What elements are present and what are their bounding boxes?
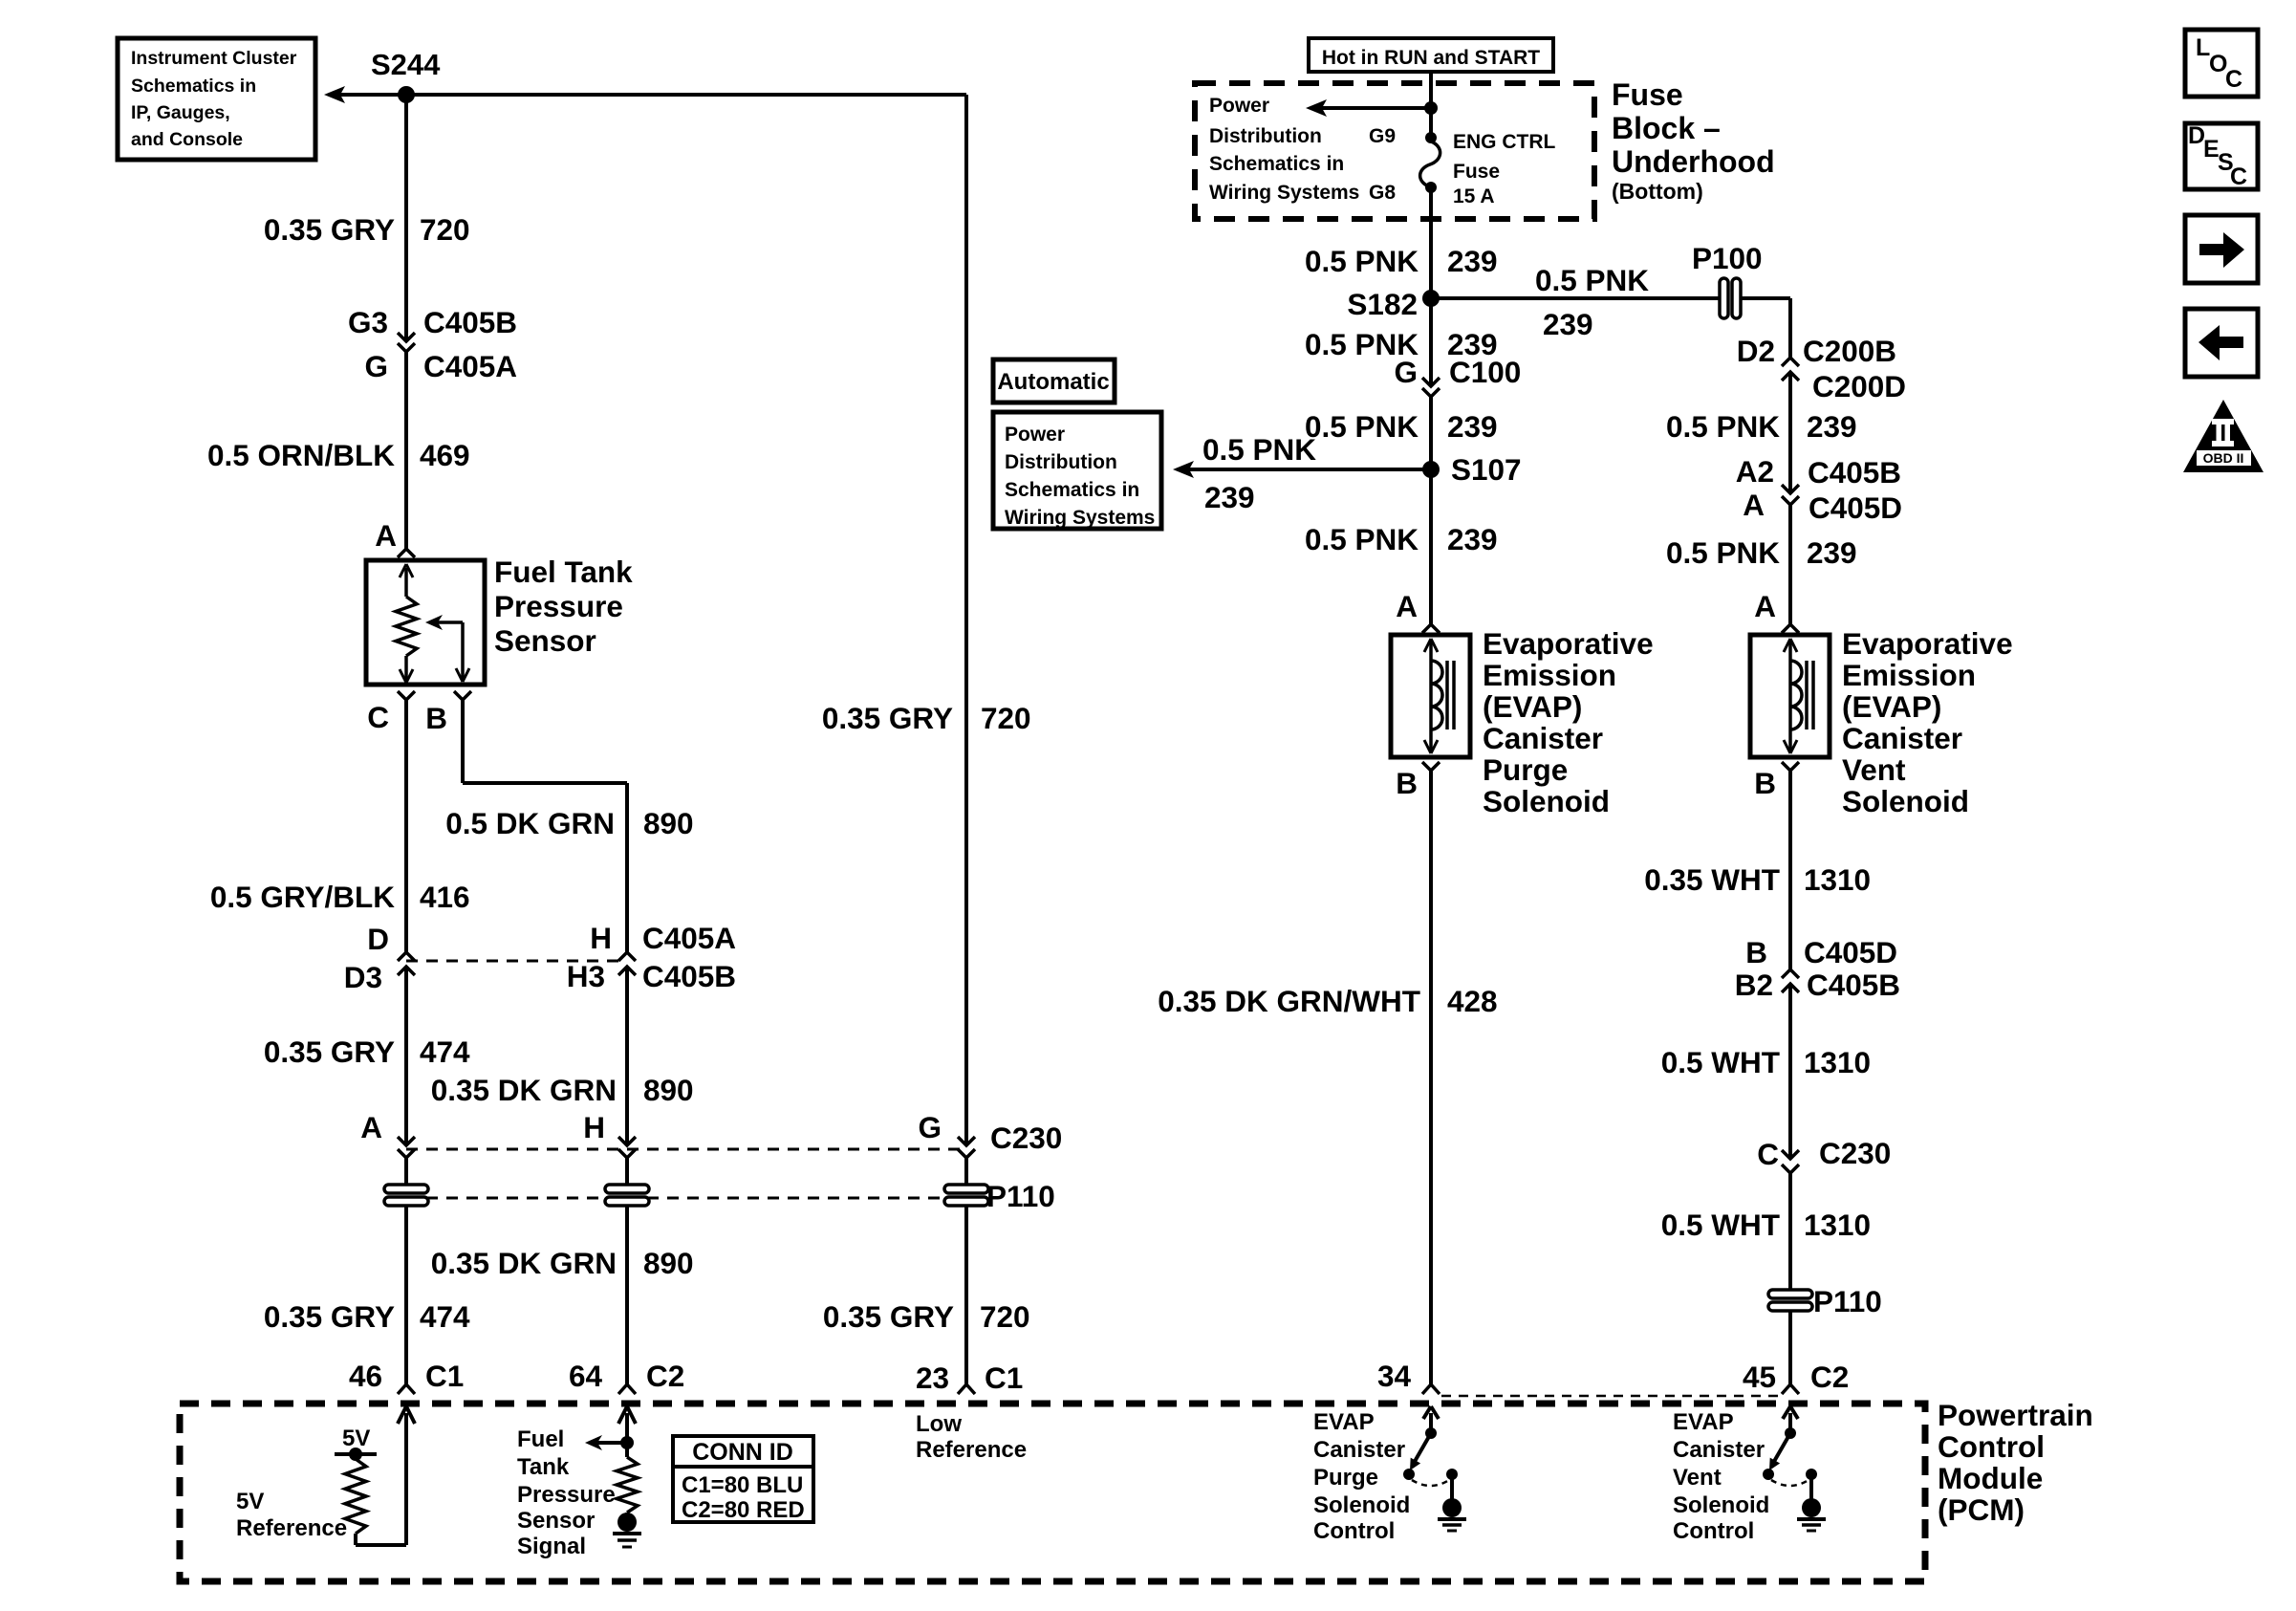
wire S244 to Instrument Cluster box with arrow — [324, 86, 406, 103]
wire 0.5 PNK 239 S182 down — [1429, 298, 1433, 386]
PCM pin 64 C2 — [569, 1359, 684, 1394]
svg-text:C200D: C200D — [1812, 369, 1906, 403]
svg-text:Fuse: Fuse — [1612, 77, 1683, 112]
svg-text:D2: D2 — [1737, 334, 1775, 368]
svg-text:Schematics in: Schematics in — [131, 76, 256, 97]
svg-text:0.5 PNK: 0.5 PNK — [1305, 244, 1419, 278]
wire 0.5 WHT 1310 lower — [1788, 1173, 1792, 1290]
label 0.5 PNK 239 (right lower) — [1666, 535, 1857, 570]
svg-text:0.5 PNK: 0.5 PNK — [1202, 432, 1316, 467]
svg-text:CONN ID: CONN ID — [692, 1439, 793, 1466]
svg-text:S107: S107 — [1451, 452, 1522, 487]
svg-text:OBD II: OBD II — [2203, 450, 2244, 466]
connector C230 pin H — [583, 1110, 636, 1158]
icon back arrow box — [2185, 309, 2258, 377]
svg-text:B: B — [1754, 766, 1776, 800]
label 5V Reference — [236, 1489, 347, 1541]
svg-text:0.5 WHT: 0.5 WHT — [1661, 1208, 1780, 1242]
PCM EVAP canister purge solenoid control switch — [1403, 1406, 1466, 1531]
svg-text:G8: G8 — [1369, 182, 1396, 204]
svg-text:239: 239 — [1807, 535, 1857, 570]
connector pins H/H3 — [567, 921, 736, 993]
svg-text:P100: P100 — [1692, 241, 1763, 275]
purge solenoid pin B — [1396, 762, 1440, 800]
label 0.5 PNK 239 (S107 down) — [1305, 522, 1498, 556]
svg-text:C405A: C405A — [423, 349, 517, 383]
svg-text:1310: 1310 — [1804, 1208, 1871, 1242]
wire from Hot box into fuse block — [1429, 72, 1433, 138]
vent solenoid pin B — [1754, 762, 1799, 800]
label 0.5 WHT 1310 lower — [1661, 1208, 1871, 1242]
label 0.35 DK GRN 890 — [431, 1073, 694, 1107]
svg-text:0.35 GRY: 0.35 GRY — [823, 1299, 954, 1334]
wire 0.5 PNK 239 S107 down to purge solenoid — [1429, 469, 1433, 624]
svg-text:S182: S182 — [1347, 287, 1418, 321]
Automatic tag box — [993, 359, 1115, 403]
svg-text:A: A — [1743, 488, 1765, 522]
svg-text:Hot in RUN and START: Hot in RUN and START — [1322, 47, 1540, 69]
wire 0.5 WHT 1310 upper — [1788, 984, 1792, 1159]
wire 0.35 GRY 474 lower segment — [404, 1206, 408, 1384]
label Evaporative Emission (EVAP) Canister Purge Solenoid — [1483, 626, 1654, 818]
svg-text:(PCM): (PCM) — [1938, 1492, 2025, 1527]
svg-text:B: B — [1745, 935, 1767, 969]
svg-text:Pressure: Pressure — [517, 1482, 616, 1508]
svg-text:239: 239 — [1807, 409, 1857, 444]
svg-text:D3: D3 — [344, 960, 382, 994]
fuel tank pressure sensor box — [366, 560, 485, 685]
svg-text:Wiring Systems: Wiring Systems — [1005, 507, 1155, 529]
svg-text:890: 890 — [643, 806, 694, 840]
svg-text:0.5 WHT: 0.5 WHT — [1661, 1045, 1780, 1079]
vent solenoid pin A — [1754, 589, 1799, 633]
svg-text:Control: Control — [1673, 1518, 1754, 1544]
svg-text:Sensor: Sensor — [494, 623, 596, 658]
connector C405A/C405B inline (D/D3 H/H3) dashed tie — [406, 960, 627, 963]
PCM pin 34 — [1377, 1359, 1440, 1394]
label EVAP Canister Vent Solenoid Control — [1673, 1409, 1769, 1544]
label 0.5 GRY/BLK 416 — [210, 880, 470, 914]
svg-text:0.35 DK GRN: 0.35 DK GRN — [431, 1073, 617, 1107]
label 5V at bar — [342, 1426, 370, 1451]
svg-text:Canister: Canister — [1673, 1437, 1765, 1463]
svg-text:5V: 5V — [236, 1489, 264, 1514]
svg-text:5V: 5V — [342, 1426, 370, 1451]
grommet P110 middle — [605, 1185, 649, 1206]
svg-text:Evaporative: Evaporative — [1483, 626, 1654, 661]
label Fuel Tank Pressure Sensor — [494, 555, 633, 658]
wire 0.35 GRY 720 vertical — [964, 95, 968, 1145]
wire 0.35 GRY 720 lower segment — [964, 1206, 968, 1384]
label 0.35 GRY 720 middle — [822, 701, 1031, 735]
grommet P110 dashed tie — [406, 1197, 966, 1200]
label 0.5 DK GRN 890 — [445, 806, 693, 840]
svg-text:Underhood: Underhood — [1612, 144, 1775, 179]
reference box Power Distribution Schematics (automatic) — [993, 412, 1161, 529]
svg-text:45: 45 — [1743, 1360, 1776, 1394]
svg-text:C1=80 BLU: C1=80 BLU — [682, 1472, 803, 1498]
svg-text:C2=80 RED: C2=80 RED — [682, 1497, 805, 1523]
svg-text:Power: Power — [1209, 95, 1269, 117]
svg-text:Power: Power — [1005, 424, 1065, 446]
pin A of fuel tank pressure sensor — [375, 518, 415, 557]
svg-text:428: 428 — [1447, 984, 1498, 1018]
svg-text:C405D: C405D — [1804, 935, 1897, 969]
svg-text:L: L — [2196, 34, 2210, 61]
svg-text:C: C — [367, 700, 389, 734]
PCM pin 23 C1 — [916, 1361, 1023, 1395]
svg-text:Block –: Block – — [1612, 111, 1721, 145]
svg-text:C100: C100 — [1449, 355, 1521, 389]
PCM pin 46 C1 — [349, 1359, 464, 1394]
connector pins D/D3 — [344, 922, 415, 994]
svg-text:0.5 PNK: 0.5 PNK — [1305, 409, 1419, 444]
svg-text:C405B: C405B — [423, 305, 517, 339]
label 0.35 DK GRN 890 lower — [431, 1246, 694, 1280]
svg-text:(EVAP): (EVAP) — [1842, 689, 1941, 724]
svg-text:0.5 ORN/BLK: 0.5 ORN/BLK — [207, 438, 395, 472]
svg-text:C1: C1 — [985, 1361, 1023, 1395]
grommet P100 — [1692, 241, 1763, 318]
PCM fuel tank pressure sensor signal circuit — [585, 1406, 641, 1547]
wire P100 to vent drop — [1741, 298, 1790, 358]
svg-text:0.35 GRY: 0.35 GRY — [264, 1299, 395, 1334]
svg-text:720: 720 — [981, 701, 1031, 735]
label Fuel Tank Pressure Sensor Signal — [517, 1426, 616, 1559]
svg-text:C2: C2 — [646, 1359, 684, 1393]
svg-text:Solenoid: Solenoid — [1483, 784, 1610, 818]
svg-text:H: H — [590, 921, 612, 955]
svg-text:P110: P110 — [986, 1179, 1055, 1213]
svg-text:Emission: Emission — [1483, 658, 1616, 692]
svg-text:A: A — [1754, 589, 1776, 623]
svg-text:C1: C1 — [425, 1359, 464, 1393]
label Low Reference — [916, 1411, 1027, 1463]
svg-text:0.35 DK GRN/WHT: 0.35 DK GRN/WHT — [1158, 984, 1420, 1018]
svg-text:Instrument Cluster: Instrument Cluster — [131, 48, 297, 69]
pin B of sensor — [425, 691, 471, 735]
icon LOC box — [2185, 30, 2258, 97]
svg-text:C405A: C405A — [642, 921, 736, 955]
svg-text:G: G — [1394, 355, 1418, 389]
label 0.5 WHT 1310 upper — [1661, 1045, 1871, 1079]
wire S244 horizontal to low-reference drop — [406, 93, 966, 97]
svg-text:46: 46 — [349, 1359, 382, 1393]
wire vent to PCM pin 45 — [1788, 1311, 1792, 1384]
svg-text:474: 474 — [420, 1034, 470, 1069]
wire 0.35 GRY 474 segment — [404, 967, 408, 1145]
svg-text:Vent: Vent — [1673, 1465, 1722, 1491]
svg-text:Control: Control — [1313, 1518, 1395, 1544]
svg-text:A: A — [360, 1110, 382, 1144]
svg-text:Module: Module — [1938, 1461, 2043, 1495]
svg-text:0.35 DK GRN: 0.35 DK GRN — [431, 1246, 617, 1280]
pin C of sensor — [367, 691, 415, 734]
svg-text:0.5 PNK: 0.5 PNK — [1666, 409, 1780, 444]
pins 34-45 dashed tie — [1441, 1395, 1780, 1398]
svg-text:A: A — [375, 518, 397, 553]
icon DESC box — [2185, 122, 2258, 190]
label 0.35 GRY 720 — [264, 212, 470, 247]
arrow to power distribution schematics — [1306, 99, 1438, 117]
svg-text:D: D — [367, 922, 389, 956]
label 0.5 PNK 239 (fuse to S182) — [1305, 244, 1498, 278]
wire 0.5 PNK 239 fuse to S182 — [1429, 187, 1433, 298]
sensor wiper arrow — [425, 615, 469, 682]
wire 0.35 DK GRN 890 lower segment — [625, 1206, 629, 1384]
label 0.35 DK GRN/WHT 428 — [1158, 984, 1497, 1018]
label 0.35 GRY 474 — [264, 1034, 470, 1069]
svg-text:C2: C2 — [1810, 1360, 1849, 1394]
svg-text:890: 890 — [643, 1246, 694, 1280]
svg-text:G: G — [918, 1110, 942, 1144]
svg-text:H: H — [583, 1110, 605, 1144]
svg-text:C230: C230 — [1819, 1136, 1891, 1170]
svg-text:(Bottom): (Bottom) — [1612, 179, 1703, 204]
fuse ENG CTRL 15A — [1369, 125, 1556, 207]
label 0.5 PNK 239 (C100 to S107) — [1305, 409, 1498, 444]
svg-text:Purge: Purge — [1313, 1465, 1378, 1491]
svg-text:C230: C230 — [990, 1121, 1062, 1155]
sensor internal potentiometer — [396, 564, 417, 683]
label 0.5 ORN/BLK 469 — [207, 438, 470, 472]
wire S182 branch to P100 — [1431, 296, 1720, 300]
svg-text:ENG CTRL: ENG CTRL — [1453, 131, 1556, 153]
label 0.35 WHT 1310 — [1644, 862, 1871, 897]
wire 0.35 DK GRN 890 segment — [625, 967, 629, 1145]
svg-text:Fuel Tank: Fuel Tank — [494, 555, 633, 589]
connector C100 pin G — [1394, 355, 1521, 397]
svg-text:Control: Control — [1938, 1429, 2045, 1464]
splice S107 with arrow to power distribution box — [1173, 452, 1522, 487]
svg-text:Distribution: Distribution — [1209, 125, 1322, 147]
splice S182 — [1347, 287, 1440, 321]
svg-text:Tank: Tank — [517, 1454, 570, 1480]
icon OBD II triangle — [2183, 400, 2264, 472]
svg-text:Signal: Signal — [517, 1534, 586, 1559]
svg-text:890: 890 — [643, 1073, 694, 1107]
svg-text:Fuse: Fuse — [1453, 161, 1500, 183]
svg-text:Solenoid: Solenoid — [1313, 1492, 1410, 1518]
label Fuse Block - Underhood (Bottom) — [1612, 77, 1775, 204]
svg-text:239: 239 — [1447, 244, 1498, 278]
svg-text:Reference: Reference — [236, 1515, 347, 1541]
svg-text:G3: G3 — [348, 305, 388, 339]
svg-text:239: 239 — [1543, 307, 1593, 341]
svg-text:469: 469 — [420, 438, 470, 472]
Hot in RUN and START box — [1309, 38, 1553, 72]
svg-text:15 A: 15 A — [1453, 185, 1495, 207]
splice S244 label — [371, 48, 441, 81]
EVAP canister vent solenoid coil — [1750, 635, 1830, 757]
Fuse Block Underhood dashed box — [1195, 83, 1594, 219]
svg-text:Wiring Systems: Wiring Systems — [1209, 182, 1359, 204]
svg-text:B: B — [1396, 766, 1418, 800]
PCM pin 45 C2 — [1743, 1360, 1849, 1394]
wire 0.5 GRY/BLK 416 (pin C down) — [404, 700, 408, 952]
svg-text:and Console: and Console — [131, 129, 243, 150]
svg-text:C405D: C405D — [1809, 490, 1902, 525]
connector C405B/C405A inline (G3/G) — [348, 305, 517, 383]
svg-text:P110: P110 — [1813, 1284, 1882, 1318]
svg-text:0.35 WHT: 0.35 WHT — [1644, 862, 1780, 897]
svg-text:G9: G9 — [1369, 125, 1396, 147]
connector C230 dashed tie — [406, 1148, 966, 1151]
Powertrain Control Module dashed box — [180, 1404, 1925, 1581]
svg-text:A2: A2 — [1736, 454, 1774, 489]
svg-text:EVAP: EVAP — [1313, 1409, 1375, 1435]
label 0.5 PNK 239 (S107 arrow) — [1202, 432, 1316, 514]
PCM EVAP canister vent solenoid control switch — [1763, 1406, 1826, 1531]
svg-text:239: 239 — [1447, 522, 1498, 556]
svg-text:C: C — [2230, 163, 2247, 190]
svg-text:C405B: C405B — [1807, 968, 1900, 1002]
svg-text:0.5 PNK: 0.5 PNK — [1666, 535, 1780, 570]
svg-text:Powertrain: Powertrain — [1938, 1398, 2093, 1432]
svg-text:720: 720 — [980, 1299, 1030, 1334]
grommet P110 vent — [1768, 1284, 1882, 1318]
connector C200B/C200D inline (D2) — [1737, 334, 1906, 403]
label EVAP Canister Purge Solenoid Control — [1313, 1409, 1410, 1544]
svg-text:0.35 GRY: 0.35 GRY — [264, 1034, 395, 1069]
svg-text:Schematics in: Schematics in — [1209, 153, 1344, 175]
grommet P110 right — [944, 1179, 1055, 1213]
svg-text:Canister: Canister — [1842, 721, 1962, 755]
connector C230 pin A — [360, 1110, 415, 1158]
svg-text:0.5 GRY/BLK: 0.5 GRY/BLK — [210, 880, 395, 914]
svg-text:64: 64 — [569, 1359, 603, 1393]
svg-text:1310: 1310 — [1804, 862, 1871, 897]
svg-text:0.5 DK GRN: 0.5 DK GRN — [445, 806, 615, 840]
svg-text:(EVAP): (EVAP) — [1483, 689, 1582, 724]
svg-text:720: 720 — [420, 212, 470, 247]
svg-text:H3: H3 — [567, 959, 605, 993]
label 0.35 GRY 720 lower — [823, 1299, 1030, 1334]
connector C405D/C405B inline (B/B2) — [1735, 935, 1900, 1002]
svg-text:0.5 PNK: 0.5 PNK — [1305, 522, 1419, 556]
svg-text:G: G — [364, 349, 388, 383]
CONN ID table — [673, 1436, 813, 1523]
wire 0.5 PNK 239 C100 to S107 — [1429, 397, 1433, 469]
splice S244 junction dot — [398, 86, 415, 103]
connector C230 pin G — [918, 1110, 1062, 1158]
wire 0.5 DK GRN 890 from pin B — [463, 700, 627, 952]
svg-text:C: C — [2225, 66, 2242, 93]
wire 0.5 ORN/BLK 469 segment — [404, 352, 408, 549]
wire 0.35 GRY 720 vertical segment (S244 down) — [404, 95, 408, 341]
svg-text:Purge: Purge — [1483, 752, 1568, 787]
svg-text:IP, Gauges,: IP, Gauges, — [131, 102, 230, 123]
label 0.5 PNK 239 branch — [1535, 263, 1649, 341]
wire 0.35 DK GRN/WHT 428 — [1429, 771, 1433, 1384]
svg-text:C200B: C200B — [1803, 334, 1896, 368]
svg-text:EVAP: EVAP — [1673, 1409, 1734, 1435]
svg-text:23: 23 — [916, 1361, 949, 1395]
wire segments into grommet P110 — [406, 1158, 966, 1186]
icon forward arrow box — [2185, 215, 2258, 283]
purge solenoid pin A — [1396, 589, 1440, 633]
PCM 5V reference circuit — [335, 1406, 415, 1545]
svg-text:Solenoid: Solenoid — [1673, 1492, 1769, 1518]
label 0.35 GRY 474 lower — [264, 1299, 470, 1334]
svg-text:Distribution: Distribution — [1005, 451, 1117, 473]
svg-text:B: B — [425, 701, 447, 735]
fuse block internal reference text — [1209, 95, 1359, 204]
EVAP canister purge solenoid coil — [1391, 635, 1470, 757]
svg-text:C405B: C405B — [642, 959, 736, 993]
connector C230 pin C — [1757, 1136, 1891, 1173]
svg-text:Sensor: Sensor — [517, 1508, 595, 1534]
svg-text:1310: 1310 — [1804, 1045, 1871, 1079]
label 0.5 PNK 239 (S182 down) — [1305, 327, 1498, 361]
svg-text:Reference: Reference — [916, 1437, 1027, 1463]
grommet P110 left — [384, 1185, 428, 1206]
svg-text:Emission: Emission — [1842, 658, 1976, 692]
connector C405B/C405D inline (A2/A) — [1736, 454, 1902, 525]
svg-text:Solenoid: Solenoid — [1842, 784, 1969, 818]
svg-text:34: 34 — [1377, 1359, 1412, 1393]
wire 0.5 PNK 239 C405 to vent solenoid — [1788, 505, 1792, 624]
wire 0.5 PNK 239 C200 to C405 — [1788, 372, 1792, 493]
svg-text:0.35 GRY: 0.35 GRY — [264, 212, 395, 247]
label Evaporative Emission (EVAP) Canister Vent Solenoid — [1842, 626, 2013, 818]
svg-text:Fuel: Fuel — [517, 1426, 564, 1452]
svg-text:Schematics in: Schematics in — [1005, 479, 1139, 501]
svg-text:0.35 GRY: 0.35 GRY — [822, 701, 953, 735]
svg-text:Low: Low — [916, 1411, 962, 1437]
svg-text:Canister: Canister — [1483, 721, 1603, 755]
label 0.5 PNK 239 (right upper) — [1666, 409, 1857, 444]
svg-text:S244: S244 — [371, 48, 441, 81]
svg-text:C405B: C405B — [1808, 455, 1901, 490]
svg-text:416: 416 — [420, 880, 470, 914]
label Powertrain Control Module (PCM) — [1938, 1398, 2093, 1527]
svg-text:Canister: Canister — [1313, 1437, 1405, 1463]
svg-text:239: 239 — [1447, 409, 1498, 444]
reference box: Instrument Cluster Schematics — [118, 38, 315, 160]
wire 0.35 WHT 1310 — [1788, 771, 1792, 969]
svg-text:A: A — [1396, 589, 1418, 623]
svg-text:Pressure: Pressure — [494, 589, 623, 623]
svg-text:Vent: Vent — [1842, 752, 1906, 787]
svg-text:239: 239 — [1204, 480, 1255, 514]
svg-text:Evaporative: Evaporative — [1842, 626, 2013, 661]
svg-text:C: C — [1757, 1137, 1779, 1171]
svg-text:0.5 PNK: 0.5 PNK — [1535, 263, 1649, 297]
svg-text:B2: B2 — [1735, 968, 1773, 1002]
svg-text:474: 474 — [420, 1299, 470, 1334]
svg-text:Automatic: Automatic — [997, 369, 1109, 395]
